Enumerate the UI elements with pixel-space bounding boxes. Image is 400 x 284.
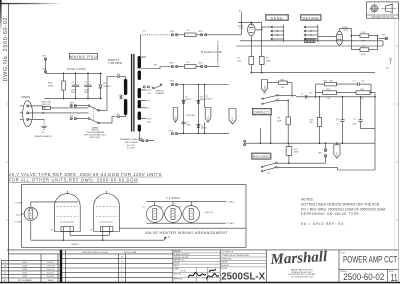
svg-text:30k: 30k [263, 93, 266, 95]
svg-text:LINE VOLTAGE: LINE VOLTAGE [124, 141, 138, 144]
svg-text:29.09.96: 29.09.96 [46, 276, 55, 278]
svg-text:COPYRIGHT OF: COPYRIGHT OF [221, 252, 233, 254]
svg-text:T13: T13 [267, 173, 270, 175]
svg-text:FOR ALL OTHER UNITS,REF DWG: 2: FOR ALL OTHER UNITS,REF DWG: 2500-60-59.… [9, 177, 139, 182]
svg-text:TO 3BK: TO 3BK [15, 202, 23, 204]
svg-text:B = 230V: B = 230V [127, 148, 136, 150]
svg-text:P6 W: P6 W [175, 116, 177, 121]
svg-text:DEPENDING ON VALVE TYPE.: DEPENDING ON VALVE TYPE. [301, 212, 360, 216]
svg-text:MAINS PSU: MAINS PSU [70, 54, 98, 59]
svg-text:BLACK: BLACK [72, 243, 79, 246]
svg-text:MODEL: MODEL [221, 268, 227, 270]
svg-text:11: 11 [391, 273, 398, 284]
svg-text:1N4007: 1N4007 [185, 99, 191, 101]
svg-text:DESCRIPTION OF ISSUE: DESCRIPTION OF ISSUE [82, 252, 108, 254]
svg-text:X 8 SIDES: X 8 SIDES [166, 197, 180, 200]
svg-text:MAINS: MAINS [22, 95, 31, 99]
svg-text:6.3V: 6.3V [147, 90, 152, 92]
svg-text:POWER AMP CCT: POWER AMP CCT [343, 255, 398, 265]
svg-text:130R: 130R [277, 121, 282, 123]
svg-text:220R: 220R [48, 85, 54, 87]
svg-text:DOTTED LINES DENOTE WORKS OFF: DOTTED LINES DENOTE WORKS OFF THE PCB. [301, 202, 380, 206]
svg-text:HOLE DATA: HOLE DATA [124, 251, 137, 254]
svg-text:TO BK2: TO BK2 [227, 201, 235, 203]
svg-text:10n: 10n [386, 67, 389, 69]
svg-text:ADC IN: ADC IN [206, 211, 213, 214]
svg-text:V6,7 VALVE TYPE REF DWG: 2500-: V6,7 VALVE TYPE REF DWG: 2500-60-34.DGM … [9, 172, 162, 177]
svg-text:20.3.97: 20.3.97 [47, 273, 55, 275]
svg-text:P2 W7: P2 W7 [232, 117, 234, 122]
svg-text:FU A E: FU A E [264, 84, 267, 90]
svg-text:ISS: ISS [3, 280, 7, 282]
svg-text:33k: 33k [310, 122, 313, 124]
svg-text:NOTES:: NOTES: [301, 198, 314, 202]
svg-text:47n: 47n [309, 93, 312, 95]
svg-text:17.11.98: 17.11.98 [46, 266, 55, 268]
svg-text:DIRECT: DIRECT [254, 111, 270, 115]
svg-text:220R: 220R [361, 54, 366, 56]
svg-text:STAR POINT: STAR POINT [67, 67, 87, 71]
svg-text:THIRD ANGLE PROJECTION: THIRD ANGLE PROJECTION [371, 16, 394, 19]
svg-text:VALVE HEATER WIRING ARRANGEMEN: VALVE HEATER WIRING ARRANGEMENT [145, 231, 228, 235]
svg-text:E6 = GRID REF: E4.: E6 = GRID REF: E4. [301, 222, 345, 226]
svg-text:CHASSIS EARTH: CHASSIS EARTH [34, 135, 52, 138]
svg-text:BLU: BLU [70, 116, 74, 118]
svg-text:FINISH: FINISH [174, 266, 179, 268]
svg-text:350V: 350V [84, 92, 89, 94]
svg-text:6n: 6n [147, 108, 149, 110]
svg-text:2500SL-X: 2500SL-X [221, 272, 265, 283]
svg-text:TYPE T88-0T: TYPE T88-0T [108, 62, 123, 65]
svg-text:RETURN: RETURN [303, 16, 319, 20]
svg-text:P7 W: P7 W [208, 116, 210, 121]
svg-text:STANDBY: STANDBY [155, 92, 165, 95]
svg-text:FO = REF DWG: 2500SC01.DGM OF: FO = REF DWG: 2500SC01.DGM OF 2500SC02.D… [301, 207, 385, 211]
svg-text:V4 (A): V4 (A) [238, 24, 244, 27]
svg-text:BOX NO: BOX NO [174, 262, 181, 264]
svg-text:WH: WH [43, 68, 47, 70]
svg-text:RECORD: RECORD [253, 155, 270, 159]
svg-text:WH: WH [43, 56, 47, 58]
svg-text:TO BK2: TO BK2 [15, 222, 23, 224]
svg-text:100R: 100R [266, 60, 271, 62]
svg-text:TO HEATER ELEMENTS: TO HEATER ELEMENTS [217, 40, 220, 65]
svg-text:A = 115V: A = 115V [127, 144, 135, 147]
svg-text:TO BK1: TO BK1 [227, 223, 235, 225]
svg-text:HT FUSE: HT FUSE [186, 115, 195, 117]
svg-text:8.4.99: 8.4.99 [48, 262, 55, 264]
svg-text:26.5.98: 26.5.98 [47, 269, 55, 271]
svg-text:Marshall: Marshall [269, 249, 328, 268]
svg-text:100R: 100R [294, 152, 299, 154]
svg-text:6.3V: 6.3V [147, 118, 152, 120]
svg-text:DATE: DATE [48, 279, 54, 282]
svg-text:1n: 1n [337, 124, 339, 126]
svg-text:DWG.No. 2500-60-02: DWG.No. 2500-60-02 [3, 17, 9, 82]
svg-text:350V: 350V [71, 92, 76, 94]
svg-text:220R 1.0P: 220R 1.0P [42, 104, 52, 106]
svg-text:P8 M: P8 M [337, 152, 339, 157]
svg-text:R24: R24 [294, 149, 297, 151]
svg-text:29.9.98: 29.9.98 [181, 271, 186, 273]
svg-text:AMPS ONLY: AMPS ONLY [90, 136, 102, 139]
svg-text:1N4007: 1N4007 [206, 98, 212, 100]
svg-text:SEND: SEND [271, 16, 284, 20]
svg-text:2500-60-02: 2500-60-02 [343, 272, 384, 282]
svg-text:CHECKED: CHECKED [174, 274, 182, 276]
svg-text:1N4007: 1N4007 [201, 128, 207, 130]
svg-text:STD NUMBER: STD NUMBER [18, 280, 32, 282]
